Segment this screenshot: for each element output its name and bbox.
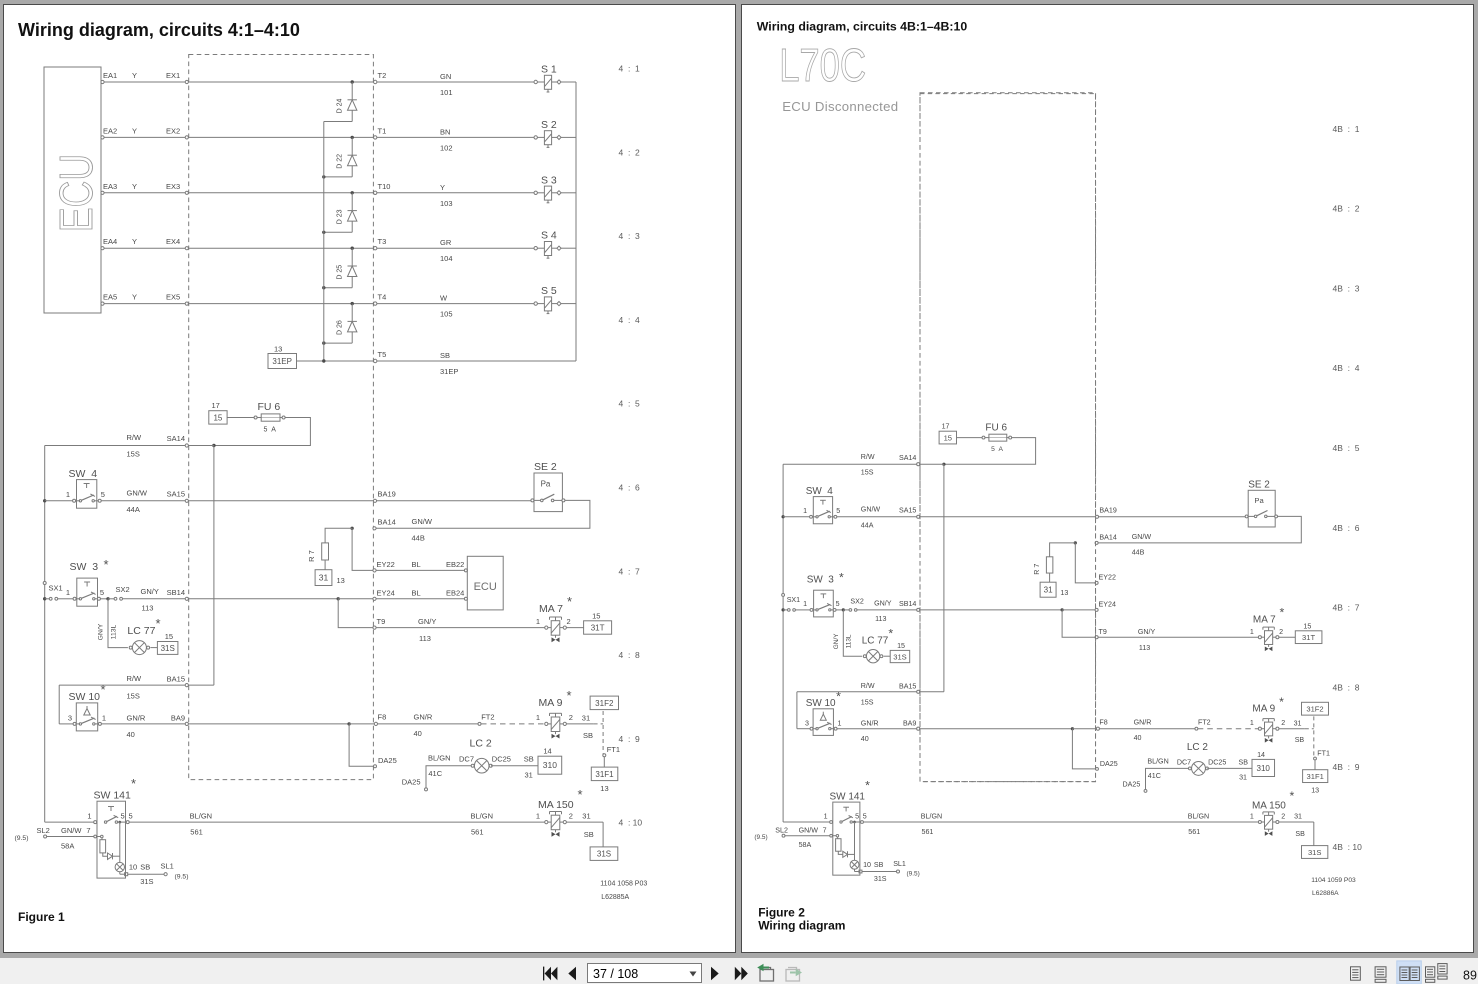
- svg-text:*: *: [567, 594, 572, 609]
- svg-text:44A: 44A: [127, 505, 140, 514]
- svg-text:BA19: BA19: [378, 490, 396, 499]
- svg-text:EB24: EB24: [446, 589, 464, 598]
- svg-text:EX3: EX3: [166, 182, 180, 191]
- svg-text:31F2: 31F2: [1306, 705, 1323, 714]
- svg-text:FT2: FT2: [1198, 719, 1211, 727]
- svg-text:40: 40: [127, 730, 135, 739]
- svg-text:SW 4: SW 4: [69, 468, 98, 480]
- svg-text:BA19: BA19: [1099, 507, 1116, 515]
- svg-text:41C: 41C: [428, 769, 442, 778]
- svg-text:T1: T1: [378, 126, 387, 135]
- svg-text:2: 2: [1279, 628, 1283, 636]
- svg-text:EY24: EY24: [1099, 601, 1116, 609]
- svg-text:Y: Y: [132, 71, 137, 80]
- svg-text:L70C: L70C: [779, 39, 866, 91]
- svg-text:SW 10: SW 10: [69, 691, 101, 703]
- svg-text:GN/W: GN/W: [799, 826, 819, 834]
- svg-text:*: *: [1280, 606, 1285, 620]
- svg-text:113: 113: [1139, 644, 1150, 652]
- svg-text:104: 104: [440, 254, 453, 263]
- svg-text:15S: 15S: [127, 450, 140, 459]
- svg-text:4 : 10: 4 : 10: [619, 818, 643, 828]
- svg-text:GN: GN: [440, 72, 451, 81]
- svg-text:T9: T9: [1099, 628, 1107, 636]
- svg-text:31: 31: [1294, 720, 1302, 728]
- svg-text:R/W: R/W: [127, 674, 143, 683]
- svg-text:EY22: EY22: [1099, 574, 1116, 582]
- svg-text:*: *: [101, 682, 106, 697]
- svg-text:SB: SB: [524, 755, 534, 764]
- svg-text:SW 3: SW 3: [807, 575, 835, 586]
- svg-text:SL2: SL2: [37, 826, 50, 835]
- svg-text:BL/GN: BL/GN: [921, 813, 942, 821]
- svg-text:GN/Y: GN/Y: [1138, 628, 1156, 636]
- svg-text:15S: 15S: [861, 469, 874, 477]
- svg-text:1: 1: [838, 720, 842, 728]
- svg-text:5: 5: [855, 813, 859, 821]
- svg-text:103: 103: [440, 199, 453, 208]
- svg-text:GN/Y: GN/Y: [874, 599, 892, 607]
- svg-text:Y: Y: [132, 126, 137, 135]
- svg-text:15: 15: [592, 612, 600, 621]
- svg-text:FT1: FT1: [607, 745, 620, 754]
- svg-text:4 : 6: 4 : 6: [619, 483, 641, 493]
- svg-text:GN/Y: GN/Y: [418, 617, 436, 626]
- svg-text:T10: T10: [378, 182, 391, 191]
- svg-text:*: *: [865, 779, 870, 793]
- svg-text:BL: BL: [412, 560, 421, 569]
- svg-text:4 : 2: 4 : 2: [619, 147, 641, 157]
- svg-text:17: 17: [212, 401, 220, 410]
- svg-text:*: *: [567, 688, 572, 703]
- svg-text:561: 561: [471, 828, 484, 837]
- svg-text:15: 15: [165, 632, 173, 641]
- svg-text:EA3: EA3: [103, 182, 117, 191]
- svg-text:113L: 113L: [846, 634, 853, 648]
- svg-text:GN/R: GN/R: [861, 720, 879, 728]
- svg-text:15: 15: [897, 642, 905, 650]
- svg-text:Figure 1: Figure 1: [18, 910, 65, 924]
- svg-text:44A: 44A: [861, 521, 874, 529]
- svg-text:40: 40: [861, 735, 869, 743]
- svg-text:58A: 58A: [799, 841, 812, 849]
- svg-text:EA5: EA5: [103, 293, 117, 302]
- svg-text:5: 5: [836, 507, 840, 515]
- svg-text:31T: 31T: [591, 624, 605, 633]
- svg-text:SE 2: SE 2: [1248, 480, 1270, 491]
- svg-text:LC 77: LC 77: [127, 625, 155, 637]
- svg-text:BN: BN: [440, 127, 450, 136]
- svg-text:*: *: [131, 776, 136, 791]
- svg-text:1: 1: [803, 507, 807, 515]
- svg-text:DC25: DC25: [1208, 758, 1226, 766]
- svg-text:EY22: EY22: [377, 560, 395, 569]
- svg-text:3: 3: [68, 714, 72, 723]
- svg-text:Y: Y: [132, 182, 137, 191]
- svg-text:ECU Disconnected: ECU Disconnected: [782, 99, 898, 114]
- svg-text:DA25: DA25: [378, 756, 397, 765]
- svg-text:BA14: BA14: [378, 518, 396, 527]
- svg-text:31: 31: [525, 771, 533, 780]
- svg-text:*: *: [839, 571, 844, 585]
- svg-text:DC7: DC7: [459, 755, 474, 764]
- svg-text:Pa: Pa: [541, 480, 551, 489]
- svg-text:31F1: 31F1: [595, 770, 614, 779]
- svg-text:1: 1: [1250, 813, 1254, 821]
- svg-text:SA14: SA14: [167, 434, 185, 443]
- svg-text:40: 40: [414, 729, 422, 738]
- svg-text:Y: Y: [132, 293, 137, 302]
- svg-text:D 23: D 23: [337, 209, 344, 224]
- svg-text:EB22: EB22: [446, 560, 464, 569]
- svg-text:*: *: [104, 557, 109, 572]
- svg-text:GN/W: GN/W: [127, 489, 148, 498]
- svg-text:L62885A: L62885A: [601, 894, 629, 901]
- svg-text:S 1: S 1: [541, 64, 557, 76]
- svg-text:S 2: S 2: [541, 119, 557, 131]
- svg-text:SB: SB: [874, 861, 884, 869]
- svg-text:15: 15: [213, 413, 222, 422]
- svg-text:310: 310: [543, 760, 557, 770]
- svg-text:MA 7: MA 7: [539, 603, 563, 615]
- svg-text:44B: 44B: [1132, 549, 1145, 557]
- svg-text:EX4: EX4: [166, 237, 180, 246]
- svg-text:31EP: 31EP: [272, 357, 292, 366]
- svg-text:113L: 113L: [111, 624, 118, 639]
- svg-text:1: 1: [1250, 628, 1254, 636]
- svg-text:4 : 1: 4 : 1: [619, 64, 641, 74]
- svg-text:DA25: DA25: [1123, 780, 1141, 788]
- svg-text:31F2: 31F2: [595, 699, 614, 708]
- svg-text:4B : 2: 4B : 2: [1333, 204, 1360, 214]
- svg-text:SX1: SX1: [787, 596, 800, 604]
- svg-text:T5: T5: [378, 350, 387, 359]
- svg-text:7: 7: [823, 826, 827, 834]
- svg-text:EA4: EA4: [103, 237, 117, 246]
- svg-text:R/W: R/W: [861, 682, 875, 690]
- svg-text:SW 4: SW 4: [806, 486, 834, 497]
- svg-text:5: 5: [129, 812, 133, 821]
- svg-text:BL/GN: BL/GN: [471, 812, 494, 821]
- svg-text:13: 13: [274, 345, 282, 354]
- svg-text:S 3: S 3: [541, 174, 557, 186]
- svg-text:*: *: [156, 616, 161, 631]
- svg-text:*: *: [836, 689, 841, 703]
- svg-text:(9.5): (9.5): [175, 874, 189, 881]
- svg-text:FU 6: FU 6: [985, 423, 1007, 434]
- svg-text:4B : 5: 4B : 5: [1333, 443, 1360, 453]
- svg-text:4B : 8: 4B : 8: [1333, 682, 1360, 692]
- svg-text:MA 150: MA 150: [538, 799, 574, 811]
- svg-text:105: 105: [440, 310, 453, 319]
- svg-text:1: 1: [66, 588, 70, 597]
- svg-text:BL/GN: BL/GN: [1147, 758, 1168, 766]
- svg-text:13: 13: [600, 784, 608, 793]
- svg-text:S 5: S 5: [541, 285, 557, 297]
- svg-text:S 4: S 4: [541, 230, 557, 242]
- svg-text:113: 113: [142, 604, 154, 613]
- svg-text:SX2: SX2: [850, 597, 863, 605]
- svg-text:1: 1: [536, 617, 540, 626]
- svg-text:SB: SB: [440, 351, 450, 360]
- svg-text:2: 2: [1281, 719, 1285, 727]
- svg-text:2: 2: [569, 713, 573, 722]
- svg-text:BA15: BA15: [899, 682, 916, 690]
- svg-text:BL: BL: [412, 589, 421, 598]
- svg-text:561: 561: [1188, 828, 1200, 836]
- svg-text:ECU: ECU: [50, 154, 102, 232]
- svg-text:5: 5: [100, 588, 104, 597]
- svg-text:4 : 3: 4 : 3: [619, 231, 641, 241]
- svg-text:13: 13: [1060, 589, 1068, 597]
- svg-text:14: 14: [1257, 751, 1265, 759]
- svg-text:15: 15: [1303, 623, 1311, 631]
- svg-text:MA 150: MA 150: [1252, 801, 1286, 812]
- svg-text:89: 89: [1463, 969, 1477, 983]
- svg-text:GN/Y: GN/Y: [141, 587, 159, 596]
- svg-text:4B : 6: 4B : 6: [1333, 523, 1360, 533]
- svg-text:BA9: BA9: [903, 720, 916, 728]
- svg-text:113: 113: [419, 634, 431, 643]
- svg-text:GN/Y: GN/Y: [833, 633, 840, 649]
- svg-text:MA 9: MA 9: [539, 697, 563, 709]
- svg-text:(9.5): (9.5): [754, 834, 767, 841]
- svg-text:1: 1: [87, 812, 91, 821]
- svg-text:SW 10: SW 10: [806, 698, 836, 709]
- svg-text:SB: SB: [583, 731, 593, 740]
- svg-text:5 A: 5 A: [991, 446, 1003, 453]
- svg-text:T4: T4: [378, 293, 387, 302]
- svg-text:SB: SB: [1295, 736, 1305, 744]
- svg-text:4 : 4: 4 : 4: [619, 315, 641, 325]
- svg-text:102: 102: [440, 143, 453, 152]
- svg-text:SX1: SX1: [49, 584, 63, 593]
- svg-text:T2: T2: [378, 71, 387, 80]
- svg-text:10: 10: [863, 861, 871, 869]
- svg-text:SW 3: SW 3: [70, 561, 99, 573]
- svg-text:310: 310: [1256, 764, 1270, 773]
- svg-text:31: 31: [582, 812, 590, 821]
- svg-text:5: 5: [101, 490, 105, 499]
- svg-text:31S: 31S: [1308, 848, 1322, 857]
- svg-text:DA25: DA25: [402, 778, 421, 787]
- svg-text:15S: 15S: [127, 692, 140, 701]
- svg-text:Y: Y: [440, 183, 445, 192]
- svg-text:GN/R: GN/R: [127, 714, 146, 723]
- svg-text:40: 40: [1134, 734, 1142, 742]
- svg-text:GR: GR: [440, 238, 452, 247]
- svg-text:5: 5: [836, 600, 840, 608]
- svg-text:7: 7: [86, 826, 90, 835]
- svg-text:LC 2: LC 2: [470, 738, 492, 750]
- svg-text:F8: F8: [1099, 719, 1107, 727]
- svg-text:EX1: EX1: [166, 71, 180, 80]
- svg-text:EX5: EX5: [166, 293, 180, 302]
- svg-text:*: *: [888, 627, 893, 641]
- svg-text:4 : 9: 4 : 9: [619, 734, 641, 744]
- svg-text:R/W: R/W: [861, 453, 875, 461]
- svg-text:BA15: BA15: [167, 675, 185, 684]
- svg-text:EY24: EY24: [377, 589, 395, 598]
- svg-text:113: 113: [875, 615, 886, 623]
- svg-text:SA14: SA14: [899, 454, 916, 462]
- svg-text:SB: SB: [1239, 758, 1249, 766]
- svg-text:31S: 31S: [893, 652, 907, 661]
- svg-text:GN/W: GN/W: [861, 506, 881, 514]
- svg-text:1104 1059 P03: 1104 1059 P03: [1311, 877, 1356, 884]
- svg-text:BL/GN: BL/GN: [190, 812, 213, 821]
- svg-text:BA14: BA14: [1099, 533, 1116, 541]
- svg-text:(9.5): (9.5): [15, 835, 29, 842]
- svg-text:SA15: SA15: [899, 507, 916, 515]
- svg-text:10: 10: [129, 863, 137, 872]
- svg-text:37 / 108: 37 / 108: [593, 967, 638, 981]
- svg-text:31EP: 31EP: [440, 367, 458, 376]
- svg-text:BL/GN: BL/GN: [1188, 813, 1209, 821]
- svg-text:DC25: DC25: [492, 755, 511, 764]
- svg-text:14: 14: [543, 747, 551, 756]
- svg-text:13: 13: [337, 576, 345, 585]
- svg-text:Wiring diagram, circuits 4:1–4: Wiring diagram, circuits 4:1–4:10: [18, 20, 300, 40]
- svg-text:SW 141: SW 141: [830, 792, 866, 803]
- svg-text:2: 2: [569, 812, 573, 821]
- svg-text:BL/GN: BL/GN: [428, 754, 451, 763]
- svg-text:15S: 15S: [861, 699, 874, 707]
- svg-text:SL1: SL1: [893, 860, 906, 868]
- svg-text:SL2: SL2: [775, 826, 788, 834]
- svg-text:R/W: R/W: [127, 433, 143, 442]
- svg-text:13: 13: [1311, 786, 1319, 794]
- svg-text:31T: 31T: [1302, 633, 1315, 642]
- svg-text:2: 2: [567, 617, 571, 626]
- svg-text:31: 31: [319, 573, 329, 583]
- svg-text:4B : 9: 4B : 9: [1333, 762, 1360, 772]
- svg-text:SL1: SL1: [161, 862, 174, 871]
- svg-text:5 A: 5 A: [264, 427, 277, 434]
- svg-text:EX2: EX2: [166, 126, 180, 135]
- svg-text:GN/Y: GN/Y: [98, 623, 105, 640]
- svg-text:15: 15: [944, 433, 952, 442]
- svg-text:FU 6: FU 6: [258, 401, 281, 413]
- svg-text:1: 1: [102, 714, 106, 723]
- svg-text:1: 1: [66, 490, 70, 499]
- svg-text:T9: T9: [377, 617, 386, 626]
- svg-text:SB14: SB14: [167, 588, 185, 597]
- svg-text:W: W: [440, 294, 448, 303]
- svg-text:DA25: DA25: [1100, 760, 1118, 768]
- svg-text:FT2: FT2: [481, 713, 494, 722]
- svg-text:GN/W: GN/W: [1132, 533, 1152, 541]
- svg-text:R 7: R 7: [1033, 564, 1041, 575]
- svg-text:1: 1: [536, 713, 540, 722]
- svg-text:1: 1: [1250, 719, 1254, 727]
- svg-text:31S: 31S: [597, 850, 611, 859]
- svg-text:*: *: [1279, 695, 1284, 709]
- svg-text:D 26: D 26: [337, 320, 344, 335]
- svg-text:58A: 58A: [61, 842, 74, 851]
- svg-text:LC 77: LC 77: [862, 635, 889, 646]
- svg-text:4B : 1: 4B : 1: [1333, 124, 1360, 134]
- svg-text:SA15: SA15: [167, 490, 185, 499]
- svg-text:31S: 31S: [140, 877, 153, 886]
- svg-text:SB14: SB14: [899, 600, 916, 608]
- svg-text:31S: 31S: [874, 875, 887, 883]
- svg-text:41C: 41C: [1148, 772, 1161, 780]
- svg-text:SB: SB: [1295, 830, 1305, 838]
- svg-text:4 : 5: 4 : 5: [619, 399, 641, 409]
- svg-text:Wiring diagram, circuits 4B:1–: Wiring diagram, circuits 4B:1–4B:10: [757, 20, 968, 34]
- svg-text:1: 1: [536, 812, 540, 821]
- svg-text:31F1: 31F1: [1307, 772, 1324, 781]
- svg-text:44B: 44B: [412, 534, 425, 543]
- svg-text:561: 561: [190, 828, 203, 837]
- svg-text:LC 2: LC 2: [1187, 742, 1209, 753]
- svg-text:MA 7: MA 7: [1253, 614, 1276, 625]
- svg-text:4B : 3: 4B : 3: [1333, 283, 1360, 293]
- svg-text:(9.5): (9.5): [907, 871, 920, 878]
- svg-text:FT1: FT1: [1317, 749, 1330, 757]
- svg-text:EA2: EA2: [103, 126, 117, 135]
- svg-text:D 25: D 25: [337, 265, 344, 280]
- svg-text:GN/R: GN/R: [414, 713, 433, 722]
- svg-text:GN/R: GN/R: [1134, 719, 1152, 727]
- svg-text:SB: SB: [140, 863, 150, 872]
- svg-text:GN/W: GN/W: [412, 517, 433, 526]
- svg-text:2: 2: [1281, 813, 1285, 821]
- svg-text:Figure 2: Figure 2: [758, 906, 805, 920]
- svg-text:L62886A: L62886A: [1312, 890, 1339, 897]
- svg-text:4 : 7: 4 : 7: [619, 566, 641, 576]
- svg-text:3: 3: [805, 720, 809, 728]
- svg-text:Pa: Pa: [1254, 496, 1264, 505]
- svg-text:DC7: DC7: [1177, 758, 1191, 766]
- svg-text:R 7: R 7: [307, 550, 316, 562]
- svg-text:GN/W: GN/W: [61, 826, 82, 835]
- svg-text:*: *: [578, 787, 583, 802]
- svg-text:31: 31: [1294, 813, 1302, 821]
- svg-text:5: 5: [863, 813, 867, 821]
- svg-text:4 : 8: 4 : 8: [619, 650, 641, 660]
- svg-text:T3: T3: [378, 237, 387, 246]
- svg-text:EA1: EA1: [103, 71, 117, 80]
- svg-text:F8: F8: [378, 713, 387, 722]
- svg-text:5: 5: [121, 812, 125, 821]
- svg-text:1: 1: [803, 600, 807, 608]
- svg-text:4B : 7: 4B : 7: [1333, 603, 1360, 613]
- svg-text:D 24: D 24: [337, 99, 344, 114]
- svg-text:Wiring diagram: Wiring diagram: [758, 919, 845, 933]
- svg-text:Y: Y: [132, 237, 137, 246]
- svg-text:*: *: [1290, 789, 1295, 803]
- svg-text:561: 561: [922, 828, 934, 836]
- svg-text:BA9: BA9: [171, 714, 185, 723]
- svg-text:MA 9: MA 9: [1252, 704, 1275, 715]
- svg-text:17: 17: [942, 423, 950, 431]
- svg-text:31: 31: [1044, 586, 1053, 595]
- svg-text:ECU: ECU: [474, 581, 497, 593]
- svg-text:31S: 31S: [161, 644, 175, 653]
- svg-text:4B : 10: 4B : 10: [1333, 842, 1363, 852]
- svg-text:SB: SB: [584, 830, 594, 839]
- svg-text:SE 2: SE 2: [534, 461, 557, 473]
- svg-text:31: 31: [582, 714, 590, 723]
- svg-text:1104 1058 P03: 1104 1058 P03: [600, 881, 647, 888]
- svg-text:SX2: SX2: [116, 585, 130, 594]
- svg-text:1: 1: [824, 813, 828, 821]
- svg-text:101: 101: [440, 88, 453, 97]
- svg-text:31: 31: [1239, 774, 1247, 782]
- svg-text:4B : 4: 4B : 4: [1333, 363, 1360, 373]
